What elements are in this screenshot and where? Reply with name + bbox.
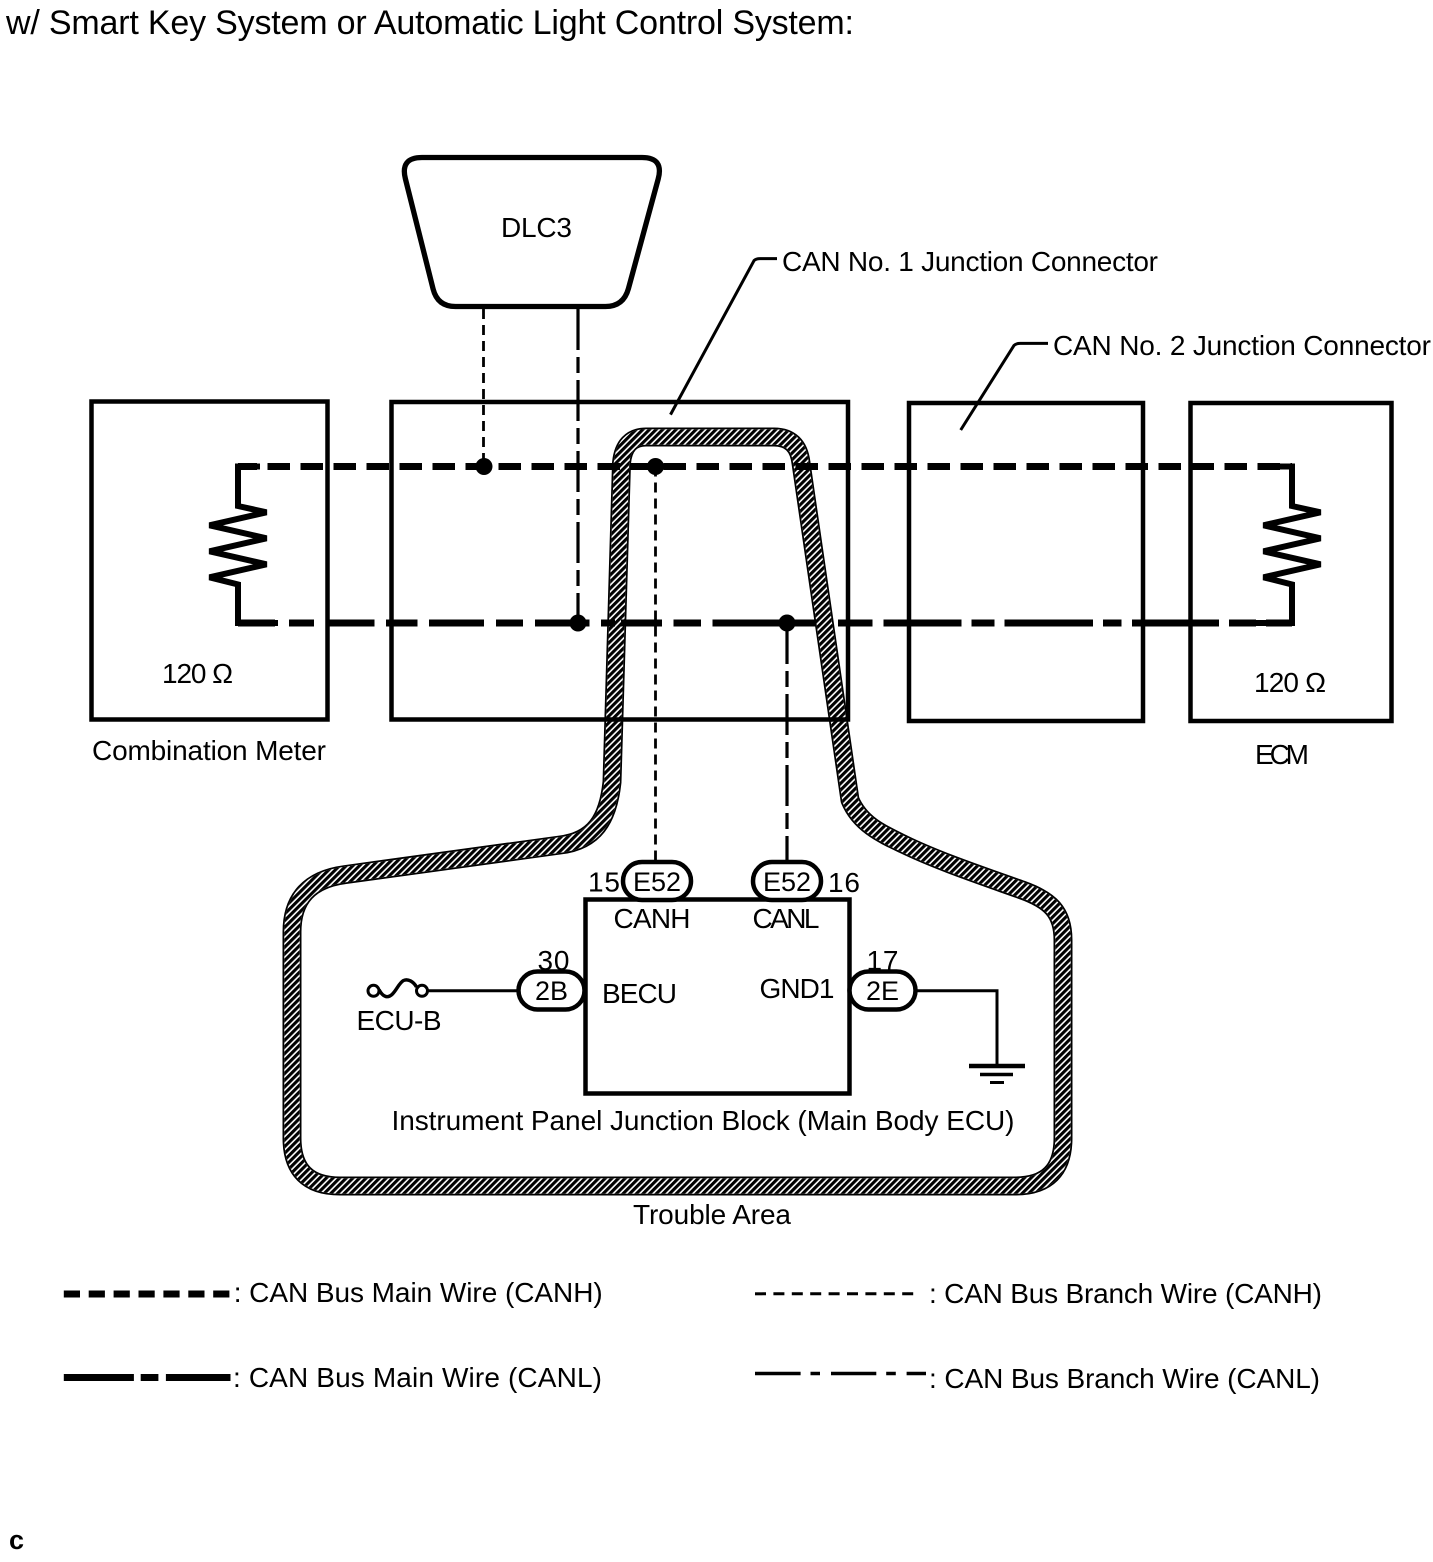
svg-text:: CAN Bus Main Wire (CANH): : CAN Bus Main Wire (CANH) bbox=[234, 1277, 603, 1308]
connector 2E bbox=[850, 972, 916, 1010]
svg-text:w/ Smart Key System or Automat: w/ Smart Key System or Automatic Light C… bbox=[5, 4, 854, 42]
connector 2B bbox=[519, 972, 585, 1010]
svg-text:: CAN Bus Branch Wire (CANL): : CAN Bus Branch Wire (CANL) bbox=[929, 1363, 1320, 1394]
svg-text:30: 30 bbox=[538, 945, 570, 976]
svg-text:Combination Meter: Combination Meter bbox=[92, 735, 326, 766]
svg-text:E52: E52 bbox=[633, 867, 681, 897]
svg-text:DLC3: DLC3 bbox=[501, 212, 572, 243]
ground bbox=[969, 1066, 1025, 1083]
wire ECU-B to 2B bbox=[428, 989, 520, 992]
instrument panel junction block box bbox=[586, 900, 850, 1094]
legend CAN bus branch wire CANL bbox=[755, 1372, 926, 1376]
svg-text:16: 16 bbox=[828, 867, 860, 898]
svg-text:15: 15 bbox=[588, 867, 620, 898]
legend CAN bus main wire CANH bbox=[64, 1291, 231, 1298]
svg-text:ECU-B: ECU-B bbox=[357, 1005, 442, 1036]
junction node CANH/E52 bbox=[647, 458, 664, 475]
leader line CAN No.2 bbox=[961, 343, 1048, 430]
svg-text:CAN No. 1 Junction Connector: CAN No. 1 Junction Connector bbox=[782, 246, 1158, 277]
svg-text:c: c bbox=[9, 1525, 24, 1555]
svg-text:: CAN Bus Branch Wire (CANH): : CAN Bus Branch Wire (CANH) bbox=[929, 1278, 1322, 1309]
svg-text:Trouble Area: Trouble Area bbox=[633, 1199, 791, 1230]
ECM box bbox=[1191, 403, 1392, 721]
svg-text:CAN No. 2 Junction Connector: CAN No. 2 Junction Connector bbox=[1053, 330, 1431, 361]
svg-text:120 Ω: 120 Ω bbox=[162, 658, 233, 689]
svg-text:17: 17 bbox=[867, 945, 899, 976]
svg-text:CANL: CANL bbox=[753, 903, 820, 934]
legend CAN bus branch wire CANH bbox=[755, 1292, 920, 1295]
wire E52 pin16 CANL branch bbox=[785, 623, 788, 862]
connector E52 pin15 bbox=[623, 862, 691, 900]
svg-text:ECM: ECM bbox=[1255, 739, 1309, 770]
svg-text:CANH: CANH bbox=[614, 903, 691, 934]
wire DLC3 CANL branch bbox=[576, 309, 579, 623]
connector E52 pin16 bbox=[753, 862, 821, 900]
trouble area hatched outline bbox=[292, 437, 1063, 1186]
junction node CANL/E52 bbox=[779, 615, 796, 632]
svg-text:BECU: BECU bbox=[602, 978, 677, 1009]
CAN No.2 junction connector box bbox=[909, 403, 1143, 721]
svg-text:2B: 2B bbox=[535, 976, 568, 1006]
CAN bus main wire CANH bbox=[238, 463, 1292, 470]
fuse ECU-B bbox=[368, 980, 428, 997]
resistor 120ohm ECM bbox=[1252, 467, 1321, 624]
junction node CANL/DLC3 bbox=[570, 615, 587, 632]
wire 2E to ground bbox=[916, 991, 998, 1064]
svg-text:: CAN Bus Main Wire (CANL): : CAN Bus Main Wire (CANL) bbox=[233, 1362, 602, 1393]
combination meter box bbox=[92, 402, 328, 720]
DLC3 connector bbox=[404, 158, 659, 307]
legend CAN bus main wire CANL bbox=[64, 1374, 231, 1381]
svg-text:E52: E52 bbox=[763, 867, 811, 897]
resistor 120ohm combination meter bbox=[210, 467, 279, 624]
svg-text:120 Ω: 120 Ω bbox=[1254, 667, 1326, 698]
svg-text:GND1: GND1 bbox=[760, 973, 835, 1004]
junction node CANH/DLC3 bbox=[476, 458, 493, 475]
CAN No.1 junction connector box bbox=[392, 402, 849, 720]
CAN bus main wire CANL bbox=[238, 620, 1292, 627]
wire DLC3 CANH branch bbox=[482, 309, 485, 467]
wire E52 pin15 CANH branch bbox=[654, 467, 657, 863]
svg-text:Instrument Panel Junction Bloc: Instrument Panel Junction Block (Main Bo… bbox=[392, 1105, 1015, 1136]
svg-text:2E: 2E bbox=[866, 976, 899, 1006]
leader line CAN No.1 bbox=[671, 259, 778, 415]
